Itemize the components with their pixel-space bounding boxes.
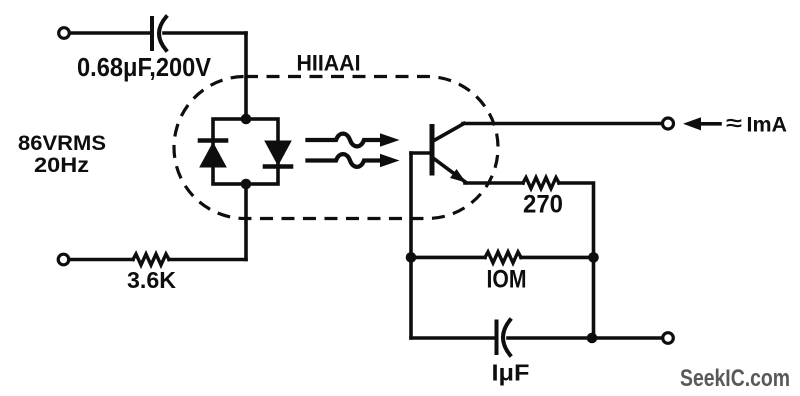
wire LED bridge bottom down to lower rail [244,184,248,260]
terminal T2 (bottom-left input) [58,254,69,265]
junction dot bottom rail [587,333,598,344]
terminal T1 (top-left input) [59,28,70,39]
wire R2 to right vertical rail [559,183,594,338]
svg-text:86VRMS: 86VRMS [18,131,106,155]
junction dot bottom of LED bridge [241,179,252,190]
capacitor C1 0.68uF right curved plate [159,17,166,50]
LED D2 cathode bar [265,164,291,169]
svg-text:IμF: IμF [492,360,530,386]
wire bottom rail right of C2 [508,336,663,340]
svg-text:IOM: IOM [487,266,527,294]
wire bottom rail left of C2 [411,336,494,340]
wire R3 to right rail [521,256,594,260]
wire Q1 base to left vertical rail [411,151,432,155]
LED bridge box [213,119,278,184]
svg-text:ImA: ImA [747,113,788,137]
current arrow (points left at T3) [683,117,701,130]
svg-text:SeekIC.com: SeekIC.com [680,365,790,392]
resistor R1 3.6K zigzag [133,254,169,265]
svg-text:270: 270 [523,191,563,219]
svg-text:20Hz: 20Hz [34,153,89,177]
resistor R2 270 zigzag [523,178,559,189]
Q1 emitter arrowhead [450,169,466,183]
capacitor C2 1uF left plate [495,322,499,354]
svg-text:HIIAAI: HIIAAI [297,51,361,76]
phototransistor Q1 base bar [430,127,435,174]
wire C1 to top corner node [164,31,246,35]
LED D2 (right, pointing down) triangle [265,141,291,165]
Q1 emitter lead [433,158,466,183]
terminal T4 (bottom-right output) [663,333,674,344]
wire vertical down to LED bridge top [244,33,248,119]
LED D1 triangle [200,143,226,167]
capacitor C2 1uF right curved plate [503,320,510,355]
wire R1 to vertical node [169,258,246,262]
svg-text:≈: ≈ [726,112,743,135]
wire T1 to capacitor C1 [70,31,150,35]
LED D1 (left, pointing up) cathode bar [200,138,226,143]
terminal T3 (top-right output) [663,118,674,129]
wire 10M row [411,256,485,260]
light arrow 1 (upper wavy) [308,134,383,147]
junction dot left 10M [406,252,417,263]
junction dot top of LED bridge [241,114,252,125]
package outline H11AA1 dashed stadium [174,77,498,219]
junction dot right 10M [588,252,599,263]
resistor R3 10M zigzag [485,252,521,263]
wire collector to output terminal T3 [463,122,662,126]
svg-text:3.6K: 3.6K [127,267,176,293]
svg-text:0.68μF,200V: 0.68μF,200V [77,54,211,82]
wire T2 to resistor R1 [69,258,133,262]
capacitor C1 0.68uF left plate [150,18,154,49]
light arrow 2 (lower wavy) [308,154,383,167]
wire emitter to resistor R2 [465,181,523,185]
Q1 collector lead [433,124,464,142]
wire left vertical rail down [409,153,413,338]
